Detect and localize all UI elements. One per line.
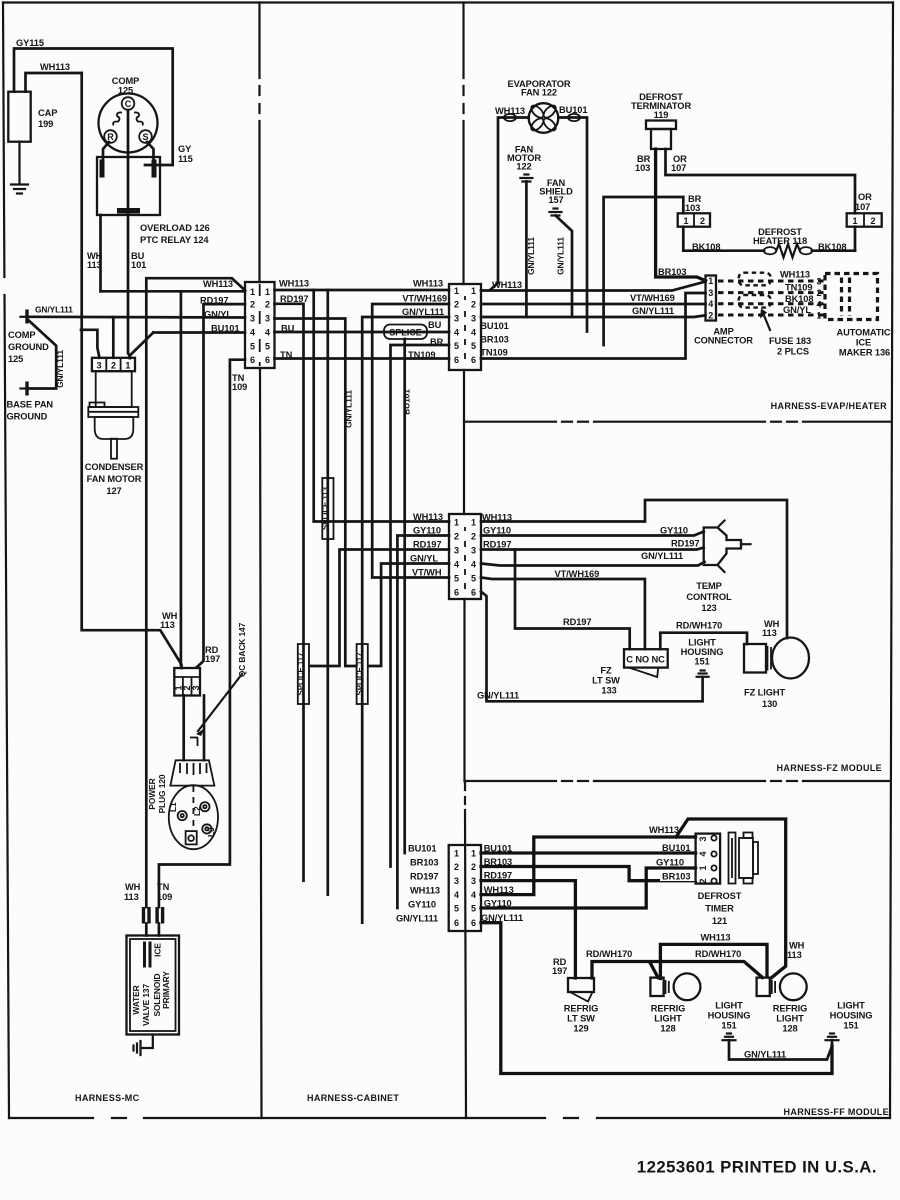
svg-text:WH113: WH113 [413, 279, 443, 289]
svg-text:BK108: BK108 [692, 242, 720, 252]
wire TN109 MC pin6 to water valve [159, 360, 247, 907]
wire GY110 FZ pin2 to FF pin5 [397, 536, 449, 909]
svg-text:WH113: WH113 [279, 279, 309, 289]
wire GN/YL111 tap to condenser cell2 [112, 317, 115, 358]
svg-text:BU: BU [428, 320, 442, 330]
svg-text:GN/YL111: GN/YL111 [481, 913, 523, 923]
svg-text:LIGHT: LIGHT [715, 1001, 743, 1011]
svg-text:GN/YL: GN/YL [410, 554, 438, 564]
svg-text:5: 5 [265, 341, 270, 351]
wire WH113 overload to MC pin1 and power cord [87, 215, 146, 291]
water valve 137 box [127, 936, 180, 1035]
svg-text:LIGHT: LIGHT [654, 1014, 682, 1024]
svg-text:12253601 PRINTED IN U.S.A.: 12253601 PRINTED IN U.S.A. [637, 1158, 877, 1177]
wire GN/YL MC pin3 to splice 117b [275, 319, 357, 667]
svg-text:BR103: BR103 [658, 267, 686, 277]
svg-text:2: 2 [471, 532, 476, 542]
svg-text:BU101: BU101 [662, 843, 690, 853]
svg-text:OVERLOAD 126: OVERLOAD 126 [140, 223, 210, 233]
svg-text:1: 1 [698, 865, 708, 870]
svg-text:6: 6 [250, 355, 255, 365]
svg-text:6: 6 [454, 918, 459, 928]
wire WH113 cap branch down to power cord block [82, 73, 182, 668]
svg-text:GN/YL: GN/YL [783, 305, 811, 315]
wire GN/YL111 ground bus to MC pin3 [29, 315, 246, 318]
svg-text:2: 2 [250, 299, 255, 309]
svg-text:113: 113 [124, 892, 139, 902]
svg-text:REFRIG: REFRIG [773, 1004, 808, 1014]
splice 117b [355, 644, 368, 704]
svg-text:107: 107 [855, 202, 870, 212]
svg-text:LIGHT: LIGHT [776, 1014, 804, 1024]
svg-text:HARNESS-EVAP/HEATER: HARNESS-EVAP/HEATER [771, 401, 887, 411]
svg-text:L3: L3 [206, 827, 216, 837]
svg-text:WH113: WH113 [649, 825, 679, 835]
wire BU101 fan right to evap pin4 [558, 105, 587, 332]
wire compressor R to overload contact [103, 142, 109, 160]
svg-text:3: 3 [454, 876, 459, 886]
svg-text:109: 109 [232, 382, 247, 392]
svg-text:WH113: WH113 [203, 279, 233, 289]
svg-text:151: 151 [694, 657, 709, 667]
wire WH113 evap pin1 to AMP pin3 [481, 280, 706, 291]
svg-text:WH113: WH113 [484, 885, 514, 895]
svg-text:4: 4 [454, 890, 459, 900]
svg-text:2: 2 [870, 216, 875, 226]
svg-text:GN/YL111: GN/YL111 [477, 691, 519, 701]
wire BU101 diagonal to condenser block cell1 [130, 333, 154, 359]
svg-text:WH: WH [125, 882, 141, 892]
svg-text:101: 101 [131, 260, 146, 270]
wire RD197 FF pin3 to refrig light switch [481, 871, 575, 979]
refrig light 128 (left) [650, 973, 700, 1033]
svg-text:TN: TN [280, 350, 293, 360]
svg-text:GN/YL111: GN/YL111 [55, 350, 65, 388]
svg-text:GN/YL111: GN/YL111 [744, 1050, 786, 1060]
svg-text:TN: TN [157, 882, 170, 892]
svg-text:2: 2 [698, 878, 708, 883]
wire TN109 MC pin6 to evap pin6 [275, 350, 450, 360]
condenser fan motor 127 terminal block [92, 358, 135, 371]
svg-text:COMP: COMP [8, 330, 36, 340]
svg-text:GROUND: GROUND [7, 412, 48, 422]
wire RD197 MC pin2 through splice 117 to FF pin3 [275, 294, 309, 881]
svg-text:WH113: WH113 [482, 513, 512, 523]
wire TN109 evap pin6 to AMP pin3 [480, 293, 705, 359]
FZ light 130 bulb [744, 638, 809, 710]
svg-text:1: 1 [471, 518, 476, 528]
connector MC-cabinet 6pin [200, 279, 275, 368]
svg-text:OR: OR [858, 192, 872, 202]
wire RD197 FZ pin3 branch to splice 117a [310, 550, 449, 667]
svg-text:3: 3 [698, 836, 708, 841]
svg-text:R: R [107, 132, 114, 142]
svg-text:GY110: GY110 [483, 526, 511, 536]
wire VT/WH169 FZ pin5 to FZ light switch C [481, 569, 645, 649]
svg-text:FUSE 183: FUSE 183 [769, 336, 811, 346]
water valve ground [134, 1035, 153, 1056]
svg-text:4: 4 [471, 327, 476, 337]
svg-text:TN109: TN109 [408, 350, 435, 360]
svg-text:3: 3 [191, 685, 201, 690]
svg-text:WH113: WH113 [780, 270, 810, 280]
svg-text:WH113: WH113 [495, 106, 525, 116]
svg-text:GN/YL111: GN/YL111 [526, 237, 536, 275]
wire WH113 cap to junction [26, 62, 82, 92]
svg-text:2: 2 [454, 532, 459, 542]
svg-text:GY110: GY110 [413, 526, 441, 536]
svg-text:GN/YL111: GN/YL111 [556, 237, 566, 275]
capacitor CAP 199 [8, 92, 57, 142]
svg-text:4: 4 [698, 851, 708, 856]
svg-text:3: 3 [250, 314, 255, 324]
splice 113 [321, 478, 334, 539]
svg-text:CONDENSER: CONDENSER [85, 462, 144, 472]
svg-text:1: 1 [471, 849, 476, 859]
svg-text:3: 3 [471, 546, 476, 556]
automatic ice maker 136 dashed box [825, 274, 878, 320]
svg-text:2: 2 [454, 862, 459, 872]
svg-text:1: 1 [683, 216, 688, 226]
svg-text:3: 3 [96, 361, 101, 371]
svg-text:SPLICE 117: SPLICE 117 [297, 653, 306, 696]
fan shield 157 ground [539, 178, 573, 317]
FZ light switch 133 [592, 649, 668, 695]
svg-text:GROUND: GROUND [8, 342, 49, 352]
svg-text:119: 119 [654, 110, 669, 120]
wire RD/WH170 switch NC to FZ light [660, 621, 747, 650]
harness boundary EVAP/FZ horizontal [464, 421, 891, 423]
svg-text:C: C [125, 99, 132, 109]
svg-text:122: 122 [516, 162, 531, 172]
svg-text:1: 1 [454, 518, 459, 528]
svg-text:FZ: FZ [600, 666, 612, 676]
svg-text:GY: GY [178, 144, 192, 154]
svg-text:GN/YL111: GN/YL111 [641, 551, 683, 561]
wire GN/YL111 down to base pan [29, 321, 66, 389]
svg-text:RD/WH170: RD/WH170 [695, 949, 741, 959]
svg-text:123: 123 [701, 603, 716, 613]
svg-text:2: 2 [471, 300, 476, 310]
svg-text:107: 107 [671, 163, 686, 173]
power cord terminal block [174, 668, 201, 696]
svg-text:VT/WH169: VT/WH169 [555, 569, 600, 579]
evaporator fan 122 [507, 79, 570, 133]
svg-text:PTC RELAY 124: PTC RELAY 124 [140, 235, 209, 245]
svg-text:4: 4 [454, 327, 459, 337]
svg-text:RD197: RD197 [483, 540, 511, 550]
svg-text:COMP: COMP [112, 76, 140, 86]
svg-text:6: 6 [471, 918, 476, 928]
svg-text:121: 121 [712, 916, 727, 926]
wire RD/WH170 switch to both refrig lights [586, 949, 763, 978]
svg-text:WH113: WH113 [410, 886, 440, 896]
dashed wires AMP to ice maker [718, 281, 824, 315]
svg-text:1: 1 [708, 276, 713, 286]
svg-text:HARNESS-FZ MODULE: HARNESS-FZ MODULE [777, 763, 882, 773]
svg-text:1: 1 [454, 286, 459, 296]
svg-text:BR103: BR103 [410, 858, 438, 868]
svg-text:HOUSING: HOUSING [681, 647, 724, 657]
base pan ground symbol [7, 382, 54, 422]
svg-text:157: 157 [548, 195, 563, 205]
svg-text:151: 151 [843, 1021, 858, 1031]
svg-text:RD197: RD197 [671, 539, 699, 549]
svg-text:FZ LIGHT: FZ LIGHT [744, 688, 785, 698]
wire GY115 from cap to overload [14, 38, 173, 165]
svg-text:GN/YL111: GN/YL111 [396, 914, 438, 924]
wire WH113 FF pin4 to timer pin3 and lights [481, 825, 696, 895]
svg-text:5: 5 [454, 341, 459, 351]
svg-text:BASE PAN: BASE PAN [7, 400, 54, 410]
svg-text:3: 3 [708, 288, 713, 298]
svg-text:POWER: POWER [147, 778, 157, 809]
svg-text:HOUSING: HOUSING [708, 1011, 751, 1021]
svg-text:1: 1 [250, 287, 255, 297]
svg-text:BU101: BU101 [559, 105, 587, 115]
svg-text:109: 109 [157, 892, 172, 902]
svg-text:128: 128 [660, 1024, 675, 1034]
svg-text:3: 3 [454, 314, 459, 324]
svg-text:GY115: GY115 [16, 38, 44, 48]
refrig light switch 129 [564, 978, 599, 1034]
label fuse 183 2 plcs with arrow [760, 309, 811, 357]
svg-text:CONNECTOR: CONNECTOR [694, 336, 753, 346]
svg-text:BU101: BU101 [211, 324, 239, 334]
svg-text:PLUG 120: PLUG 120 [157, 774, 167, 813]
svg-text:LT SW: LT SW [567, 1014, 595, 1024]
svg-text:LIGHT: LIGHT [688, 638, 716, 648]
svg-text:TN109: TN109 [785, 283, 812, 293]
wire compressor S to overload contact [147, 142, 154, 160]
svg-text:WH113: WH113 [701, 933, 731, 943]
svg-text:TEMP: TEMP [696, 581, 721, 591]
svg-text:103: 103 [635, 163, 650, 173]
svg-text:6: 6 [471, 588, 476, 598]
svg-text:ICE: ICE [856, 337, 871, 347]
wire RD197 FZ pin3 to temp control [481, 539, 704, 550]
svg-text:SPLICE: SPLICE [389, 328, 422, 338]
svg-text:BU101: BU101 [484, 844, 512, 854]
wire WH113 to water valve (upper route to MC pin1) [146, 278, 245, 907]
wire WH113 FZ pin1 to FZ light [481, 500, 787, 638]
svg-text:VT/WH169: VT/WH169 [630, 293, 675, 303]
wire BU101 MC pin4 to evap pin4 with splice [275, 324, 450, 334]
svg-text:5: 5 [250, 341, 255, 351]
svg-text:113: 113 [87, 260, 102, 270]
svg-text:BR103: BR103 [484, 857, 512, 867]
svg-text:FAN 122: FAN 122 [521, 88, 557, 98]
svg-text:REFRIG: REFRIG [651, 1004, 686, 1014]
svg-text:HARNESS-CABINET: HARNESS-CABINET [307, 1093, 399, 1103]
svg-text:REFRIG: REFRIG [564, 1004, 599, 1014]
svg-text:2: 2 [265, 299, 270, 309]
svg-text:2: 2 [471, 862, 476, 872]
svg-text:115: 115 [178, 154, 193, 164]
temp control 123 [686, 521, 750, 614]
comp ground 125 symbol [8, 305, 73, 365]
svg-text:197: 197 [205, 654, 220, 664]
svg-text:RD197: RD197 [413, 540, 441, 550]
svg-text:4: 4 [454, 560, 459, 570]
svg-text:2: 2 [111, 361, 116, 371]
svg-text:GY110: GY110 [408, 900, 436, 910]
light housing 151 ground (left) [708, 1001, 832, 1060]
defrost terminator 119 [631, 92, 692, 149]
svg-text:1: 1 [125, 361, 130, 371]
wire GN/YL111 FZ pin6 to light housing ground [481, 592, 703, 702]
wire BR103 terminator down to AMP pin1 [635, 149, 706, 281]
svg-text:GY110: GY110 [660, 526, 688, 536]
svg-text:4: 4 [471, 560, 476, 570]
wire GY110 FF pin5 to defrost timer pin1 [481, 858, 696, 909]
svg-text:3: 3 [265, 314, 270, 324]
svg-text:CONTROL: CONTROL [686, 592, 732, 602]
svg-text:L2: L2 [192, 806, 202, 816]
svg-text:1: 1 [265, 287, 270, 297]
connector CABINET/FZ 6pin [449, 514, 481, 599]
svg-text:SPLICE 117: SPLICE 117 [355, 653, 364, 696]
connector BR103 1-2 [678, 213, 710, 226]
svg-text:GN/YL111: GN/YL111 [35, 305, 73, 315]
refrig light 128 (right) [757, 973, 808, 1033]
svg-text:113: 113 [787, 950, 802, 960]
svg-text:PRIMARY: PRIMARY [161, 971, 171, 1009]
svg-text:133: 133 [601, 686, 616, 696]
svg-text:5: 5 [471, 904, 476, 914]
svg-text:4: 4 [250, 328, 255, 338]
wire VT/WH169 evap pin2 to AMP pin4 [481, 293, 706, 304]
svg-text:VALVE 137: VALVE 137 [141, 984, 151, 1027]
harness boundary CABINET/right vertical [464, 3, 467, 1119]
wire WH113 fan left to evap pin1 [490, 106, 529, 290]
svg-text:3: 3 [471, 876, 476, 886]
svg-text:2: 2 [700, 216, 705, 226]
splice label oval on BU101 [384, 325, 427, 340]
svg-text:6: 6 [265, 355, 270, 365]
harness boundary MC/CABINET vertical [260, 3, 262, 1119]
svg-text:5: 5 [471, 341, 476, 351]
svg-text:VT/WH: VT/WH [412, 568, 442, 578]
fuse 183 dashed boxes [739, 273, 771, 308]
svg-text:MAKER 136: MAKER 136 [839, 347, 890, 357]
svg-text:199: 199 [38, 119, 53, 129]
svg-text:113: 113 [762, 628, 777, 638]
wire WH113 horizontal to MC pin1 [101, 290, 246, 293]
svg-text:WH113: WH113 [40, 62, 70, 72]
svg-text:BU: BU [281, 324, 295, 334]
wire OR107 terminator to OR connector [666, 149, 856, 213]
svg-text:GN/YL111: GN/YL111 [632, 306, 674, 316]
wire BU101 FF pin1 to defrost timer pin4 [481, 843, 696, 854]
AMP connector [694, 276, 753, 346]
svg-text:5: 5 [454, 574, 459, 584]
wire GN/YL111 evap pin3 through splice 117b to FF pin6 [362, 307, 449, 923]
splice 117a [297, 644, 310, 704]
wire BU101 overload to MC pin4 [153, 331, 245, 334]
wire WH113 branch to FZ pin1 [314, 290, 449, 522]
svg-text:RD197: RD197 [280, 294, 308, 304]
svg-text:128: 128 [782, 1024, 797, 1034]
svg-text:4: 4 [816, 299, 821, 309]
svg-text:RD/WH170: RD/WH170 [676, 621, 722, 631]
svg-text:BK108: BK108 [818, 242, 846, 252]
defrost timer 121 [696, 833, 758, 927]
svg-text:WH: WH [789, 941, 805, 951]
wire WH113 rail to refrig light 2 [676, 819, 805, 979]
svg-text:1: 1 [816, 311, 821, 321]
svg-text:GN/YL111: GN/YL111 [344, 390, 354, 428]
svg-text:6: 6 [454, 355, 459, 365]
svg-text:GN/YL: GN/YL [204, 310, 232, 320]
svg-text:129: 129 [573, 1024, 588, 1034]
power plug 120 [169, 760, 218, 849]
wire GY110 FZ pin2 to temp control [481, 526, 704, 536]
wire BR103 FF pin2 to defrost timer pin2 [481, 857, 701, 882]
svg-text:3: 3 [816, 277, 821, 287]
connector CABINET/FF 6pin [449, 845, 481, 931]
water valve inline connectors [124, 882, 172, 936]
defrost heater 118 with BK108 leads [683, 227, 855, 258]
svg-text:4: 4 [471, 890, 476, 900]
svg-text:1: 1 [852, 216, 857, 226]
svg-text:CAP: CAP [38, 108, 57, 118]
wire WH113 jumper rail between lights [660, 933, 767, 979]
svg-text:6: 6 [471, 355, 476, 365]
svg-text:HARNESS-MC: HARNESS-MC [75, 1093, 140, 1103]
wire WH113 MC pin1 to evap pin1 [275, 279, 450, 291]
wire BU101 branch to FF pin1 [402, 339, 412, 853]
compressor COMP 125 [99, 76, 158, 153]
svg-text:4: 4 [265, 328, 270, 338]
wire GN/YL111 FZ pin4 to temp control [481, 551, 705, 566]
svg-text:FAN MOTOR: FAN MOTOR [87, 474, 142, 484]
wire WH113 tap down to power cord block cell1 [180, 291, 183, 665]
connector OR107 1-2 [847, 192, 882, 227]
svg-text:DEFROST: DEFROST [698, 891, 742, 901]
svg-text:BR103: BR103 [662, 872, 690, 882]
svg-text:RD/WH170: RD/WH170 [586, 949, 632, 959]
svg-text:1: 1 [471, 286, 476, 296]
fan motor 122 ground [507, 145, 541, 318]
svg-text:ICE: ICE [153, 943, 163, 957]
svg-text:130: 130 [762, 699, 777, 709]
harness boundary bottom line (partially dashed) [9, 1117, 890, 1119]
svg-text:2 PLCS: 2 PLCS [777, 347, 809, 357]
svg-text:LIGHT: LIGHT [837, 1001, 865, 1011]
svg-text:WH113: WH113 [413, 512, 443, 522]
svg-text:WH113: WH113 [492, 280, 522, 290]
wire WH113 branch through splice 113 to FF pin4 [326, 290, 329, 895]
svg-text:VT/WH169: VT/WH169 [402, 294, 447, 304]
svg-text:127: 127 [106, 486, 121, 496]
svg-text:LT SW: LT SW [592, 676, 620, 686]
wire GN/YL111 FF pin6 to light housing grounds [481, 913, 832, 1074]
svg-text:5: 5 [471, 574, 476, 584]
light housing 151 ground (right) [826, 1001, 873, 1046]
harness boundary FZ/FF horizontal [465, 780, 891, 782]
svg-text:2: 2 [454, 300, 459, 310]
svg-text:HARNESS-FF MODULE: HARNESS-FF MODULE [784, 1107, 889, 1117]
wire VT/WH169 evap pin2 to FZ pin5 [372, 294, 449, 578]
svg-text:GY110: GY110 [484, 899, 512, 909]
ground below capacitor [11, 142, 28, 194]
wire BR103 evap pin5 to FF pin2 [391, 337, 450, 867]
svg-text:113: 113 [160, 620, 175, 630]
svg-text:GY110: GY110 [656, 858, 684, 868]
svg-text:RD197: RD197 [410, 872, 438, 882]
connector CABINET/EVAP 6pin [449, 284, 481, 370]
